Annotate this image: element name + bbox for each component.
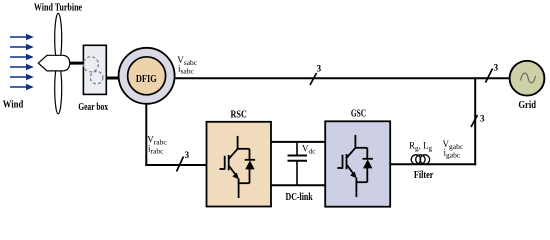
svg-text:RSC: RSC (231, 110, 247, 121)
svg-text:3: 3 (185, 150, 190, 160)
svg-text:Gear box: Gear box (78, 102, 108, 113)
svg-text:3: 3 (317, 63, 322, 73)
svg-text:DFIG: DFIG (136, 73, 157, 85)
svg-text:Grid: Grid (518, 99, 536, 111)
svg-text:Wind Turbine: Wind Turbine (34, 2, 82, 14)
svg-text:Filter: Filter (414, 170, 434, 181)
svg-text:Wind: Wind (3, 98, 24, 110)
svg-text:GSC: GSC (351, 109, 366, 120)
svg-text:DC-link: DC-link (286, 191, 314, 203)
svg-text:3: 3 (494, 62, 499, 72)
svg-text:3: 3 (480, 113, 485, 123)
